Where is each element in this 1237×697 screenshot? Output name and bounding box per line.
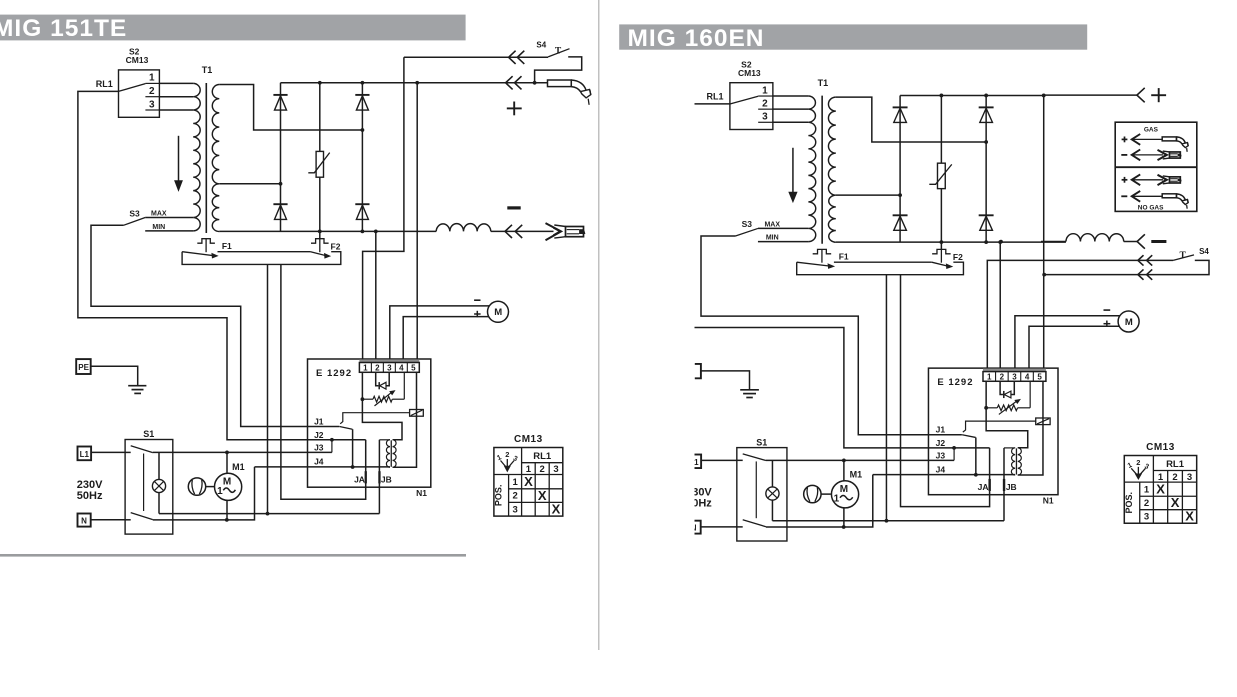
svg-text:T1: T1 (818, 78, 829, 88)
wire pin3 stub (386, 372, 389, 385)
wire S3 to J1 (91, 225, 339, 426)
wire N to S1 (701, 526, 737, 528)
node J2 bracket junction (952, 446, 956, 450)
wire plus bus vertical to pin5 (1043, 95, 1045, 368)
relay contact blade J1 (340, 427, 353, 430)
table CM13 X marks (524, 474, 561, 516)
terminal N box (687, 521, 701, 534)
wire lamp line to JB (772, 520, 1004, 522)
terminal strip 1-5 (983, 372, 1046, 382)
lamp wire bottom (158, 493, 160, 514)
table CM13 column numbers (526, 464, 559, 475)
svg-text:JB: JB (381, 475, 392, 485)
wire T1 secondary mid tap to rectifier (219, 183, 280, 185)
wire rectifier left column (899, 95, 901, 242)
svg-text:1: 1 (512, 477, 518, 488)
transformer JA/JB core (1015, 448, 1017, 474)
motor M1 (215, 473, 242, 500)
switch S3 blade (124, 218, 145, 226)
table CM13 row numbers (1144, 485, 1150, 523)
wire JB bar to lamp line (1003, 448, 1005, 521)
connector JA bar (988, 479, 990, 491)
wire T1 MAX tap (758, 227, 808, 229)
node rectifier AC input right (984, 140, 988, 144)
svg-text:RL1: RL1 (1166, 459, 1185, 470)
switch S1 box (737, 448, 787, 541)
potentiometer R1 (986, 381, 1030, 414)
diode D5 (board) (379, 382, 386, 389)
diode D5 (board) (1004, 391, 1011, 398)
wire L1 phase line to J3 (766, 459, 954, 461)
svg-text:3: 3 (1012, 372, 1017, 381)
svg-text:M1: M1 (232, 462, 245, 472)
switch S1 bottom blade (743, 520, 766, 527)
svg-text:3: 3 (149, 99, 155, 110)
svg-text:RL1: RL1 (96, 79, 113, 89)
varistor RV1 wire bottom (319, 177, 321, 231)
svg-text:2: 2 (540, 464, 545, 475)
connector chevron on plus output (1137, 88, 1145, 102)
connector chevrons on S4 line (509, 51, 525, 64)
svg-text:2: 2 (1000, 372, 1005, 381)
legend arrow GAS minus row (1121, 150, 1163, 161)
fuse F1 element (197, 238, 215, 252)
node motor M1 top junction (225, 451, 229, 455)
svg-text:N1: N1 (1043, 496, 1054, 506)
connector JB bar (1003, 479, 1005, 491)
switch S1 top blade (743, 454, 766, 461)
wire PE to ground (91, 366, 138, 386)
svg-text:2: 2 (512, 491, 517, 502)
svg-text:J1: J1 (314, 416, 324, 426)
label plus output (507, 102, 522, 116)
wire S4 trigger line (left page) (404, 56, 548, 58)
wire S2 pin2 to T1 primary (773, 108, 809, 110)
wire inductor to chevron (1124, 241, 1137, 243)
node plus bus taps (318, 81, 419, 85)
terminal strip hatched band (983, 369, 1046, 372)
wire L1 to S1 (91, 451, 125, 453)
svg-text:M: M (494, 307, 502, 318)
svg-text:MIG 151TE: MIG 151TE (0, 15, 127, 42)
title bar MIG 160EN (619, 24, 1087, 51)
node S4 loop to plus line (533, 81, 537, 85)
svg-text:2: 2 (505, 450, 509, 459)
wire bar leg right to JA (281, 264, 366, 499)
connector chevrons on plus line (506, 76, 522, 89)
wire bar leg left to lamp line (267, 264, 269, 513)
svg-text:S4: S4 (1199, 247, 1209, 256)
svg-text:POS.: POS. (1124, 492, 1134, 514)
svg-text:F2: F2 (953, 252, 963, 262)
terminal PE box (clipped) (695, 364, 701, 378)
transformer JB winding (1018, 448, 1022, 475)
wire minus bus tap to pin2 (375, 231, 377, 359)
svg-text:JB: JB (1006, 482, 1017, 492)
wire motor M1 bottom (226, 500, 228, 520)
wire T1 MIN tap (758, 241, 808, 243)
svg-text:50Hz: 50Hz (686, 497, 712, 509)
switch S2 label (738, 59, 761, 77)
inductor L1 (output choke) (1066, 234, 1124, 242)
fuse F1 blade (797, 262, 834, 268)
svg-text:J1: J1 (936, 425, 946, 435)
wire motor M plus lead to pin4 (1029, 326, 1119, 368)
svg-text:CM13: CM13 (514, 434, 543, 445)
fan icon (804, 485, 821, 502)
terminal L1 box (78, 447, 92, 461)
title bar MIG 151TE (0, 15, 466, 43)
wire L1 to S1 (701, 459, 737, 461)
fan icon (188, 478, 205, 495)
left page circuit (76, 41, 591, 534)
board E1292 box (928, 368, 1058, 495)
node motor M1 bottom junction (225, 518, 229, 522)
wire rectifier right column (361, 83, 363, 232)
transformer T1 core (821, 96, 823, 244)
wire motor M1 top (843, 460, 845, 481)
svg-text:M: M (223, 476, 231, 487)
fuse F2 element (311, 238, 329, 252)
node minus bus to pin2 (999, 240, 1003, 244)
wire plus bus (bridge section) (281, 82, 418, 84)
node rectifier AC input left (279, 182, 283, 186)
thermal cutout bar (182, 252, 341, 265)
svg-text:M: M (1125, 317, 1133, 328)
wire rectifier right column (985, 95, 987, 242)
wire S4 line down to pin1 (363, 57, 404, 359)
lamp wire top (771, 460, 773, 487)
wire T1 MIN tap (145, 230, 193, 232)
terminal PE box (76, 359, 91, 374)
svg-text:X: X (552, 502, 561, 517)
svg-text:F1: F1 (839, 251, 849, 261)
svg-text:N: N (691, 524, 697, 533)
svg-text:L1: L1 (80, 450, 90, 459)
diode D2 (355, 95, 369, 110)
wire neutral line to J4 (766, 475, 873, 527)
transformer JA winding (386, 440, 390, 468)
earth clamp icon (minus output) (546, 223, 585, 240)
wire plus bus vertical to pin5 (416, 83, 418, 360)
switch S2 contact bars (758, 96, 773, 122)
table CM13 row numbers (512, 477, 518, 515)
wire J4 line to JA winding bottom (873, 474, 1015, 476)
torch icon GAS plus row (1162, 137, 1188, 152)
wire motor M plus lead to pin4 (403, 317, 489, 360)
svg-text:J2: J2 (314, 430, 324, 440)
svg-text:S3: S3 (742, 219, 753, 229)
svg-text:NO GAS: NO GAS (1138, 204, 1164, 211)
switch S2 contact numbers (762, 85, 768, 122)
svg-text:CM13: CM13 (1146, 442, 1175, 453)
wire T1 secondary top tap to rectifier (219, 85, 362, 131)
table CM13 column numbers (1158, 472, 1192, 483)
switch S2 label (126, 46, 149, 65)
wire S3 to J1 (701, 236, 962, 435)
diode D4 (355, 204, 369, 219)
svg-text:S1: S1 (756, 437, 767, 447)
switch S1 bottom stub (125, 519, 131, 521)
svg-text:X: X (1185, 509, 1194, 524)
svg-text:J3: J3 (936, 450, 946, 460)
svg-text:CM13: CM13 (738, 68, 761, 78)
wire J2-J3 bracket (331, 440, 333, 453)
wire S2 pin1 to T1 primary (159, 82, 193, 84)
lamp wire bottom (771, 500, 773, 521)
node J2 bracket junction (330, 438, 334, 442)
switch S2 contact numbers (149, 73, 155, 111)
svg-text:E 1292: E 1292 (937, 377, 973, 388)
switch S1 link (143, 454, 145, 512)
wire RL1 net: S2 input down and across to J2 (687, 104, 989, 448)
wire minus bus to inductor (1041, 241, 1066, 243)
page divider line (598, 0, 600, 650)
arrow regulator mark on T1 (789, 148, 797, 202)
varistor RV1 wire top (940, 95, 942, 163)
svg-text:M1: M1 (850, 470, 863, 480)
node motor M1 top junction (842, 458, 846, 462)
svg-text:3: 3 (1187, 472, 1192, 483)
node J4 junction (351, 465, 355, 469)
svg-text:3: 3 (512, 504, 517, 515)
wire S2 pin3 to T1 primary (773, 121, 809, 123)
label minus output (1151, 240, 1166, 243)
varistor RV1 (308, 151, 329, 177)
svg-text:3: 3 (553, 464, 558, 475)
svg-text:MAX: MAX (764, 221, 780, 228)
motor M (wire feed) (488, 301, 509, 322)
svg-text:N1: N1 (416, 488, 427, 498)
legend arrow NO GAS plus row (1122, 174, 1163, 185)
wire pin2 stub (376, 372, 379, 385)
table CM13 selector icon (496, 450, 518, 471)
wire F2 stem to minus bus (319, 231, 321, 238)
svg-text:1: 1 (987, 372, 992, 381)
wire J1 blade to J4 line (975, 437, 977, 474)
wire bar leg right to JA (901, 275, 990, 507)
svg-text:3: 3 (1144, 512, 1149, 523)
legend arrow NO GAS minus row (1121, 191, 1162, 202)
svg-text:RL1: RL1 (706, 92, 723, 102)
switch S1 box (125, 440, 173, 535)
node potentiometer left tap (984, 406, 988, 410)
switch S1 top stub (125, 451, 131, 453)
svg-text:5: 5 (411, 363, 416, 372)
svg-text:J3: J3 (314, 443, 324, 453)
right page circuit (outputs and legend) (695, 88, 1210, 398)
label minus at motor M (1103, 309, 1110, 311)
connector chevron on minus output (1137, 234, 1145, 248)
node lamp line junction (885, 519, 889, 523)
switch S2 box (119, 70, 160, 117)
wire fan to motor M1 (822, 493, 831, 495)
switch S4 blade (548, 49, 569, 57)
terminal N box (78, 514, 91, 527)
wire neutral line to J4 (153, 467, 255, 520)
svg-text:X: X (524, 474, 533, 489)
svg-text:E 1292: E 1292 (316, 368, 352, 379)
svg-text:4: 4 (399, 363, 404, 372)
label 230V 50Hz (686, 486, 712, 509)
diode D4 (979, 215, 994, 230)
lamp wire top (158, 452, 160, 479)
diode D3 (273, 204, 287, 219)
switch S4 blade (1173, 255, 1194, 261)
label 230V 50Hz (77, 479, 103, 502)
switch S1 bottom stub (737, 526, 743, 528)
wire motor M1 bottom (843, 508, 845, 527)
svg-text:2: 2 (149, 86, 155, 97)
earth clamp icon GAS minus row (1158, 150, 1182, 160)
node motor M1 bottom junction (842, 525, 846, 529)
switch S1 top stub (737, 459, 743, 461)
potentiometer R1 (362, 372, 404, 406)
node J4 junction (974, 473, 978, 477)
varistor RV1 wire top (319, 83, 321, 152)
fuse F1 element (813, 249, 831, 263)
thermal cutout bar (797, 262, 964, 275)
wire S2 pin3 to T1 primary (159, 109, 193, 111)
wire pin1 to JB winding top (986, 381, 1028, 448)
motor M1 (831, 481, 858, 508)
diode D1 (273, 95, 287, 110)
svg-text:J4: J4 (314, 457, 324, 467)
label plus output (1151, 88, 1166, 102)
transformer T1 core (205, 83, 207, 233)
transformer T1 primary winding (193, 83, 200, 231)
terminal L1 box (687, 455, 701, 469)
connector JA bar (365, 471, 367, 483)
svg-text:4: 4 (1025, 372, 1030, 381)
switch S2 blade (119, 84, 145, 92)
wire fan to motor M1 (206, 486, 215, 488)
fuse F2 blade (311, 252, 330, 258)
svg-text:RL1: RL1 (533, 451, 552, 462)
wire S4 fixed contact loop to plus line (535, 57, 582, 83)
svg-text:2: 2 (1136, 458, 1140, 467)
table CM13 X marks (1156, 482, 1194, 524)
transformer JA winding (1011, 448, 1015, 475)
lamp HL1 (766, 487, 779, 500)
wire J4 line to JA winding bottom (255, 466, 391, 468)
svg-text:1: 1 (217, 486, 223, 497)
svg-text:5: 5 (1037, 372, 1042, 381)
wire pin3 stub (1011, 381, 1014, 394)
wire JB bar to lamp line (378, 440, 380, 514)
wire S2 pin1 to T1 primary (773, 95, 809, 97)
switch S1 top blade (131, 446, 153, 453)
transformer T1 secondary winding (828, 97, 835, 242)
wire J2-J3 bracket (953, 448, 955, 460)
wire pin5 through relay coil to JB winding bottom (1018, 381, 1043, 475)
svg-text:2: 2 (762, 99, 768, 110)
svg-text:1: 1 (363, 363, 368, 372)
node plus bus taps (939, 94, 1045, 98)
varistor RV1 wire bottom (940, 189, 942, 243)
wire plus bus to output (right page) (1044, 94, 1137, 96)
wire motor M1 top (226, 452, 228, 473)
svg-text:1: 1 (1144, 485, 1150, 496)
svg-text:X: X (1156, 482, 1165, 497)
svg-text:MIG 160EN: MIG 160EN (628, 25, 765, 52)
legend arrow GAS plus row (1122, 134, 1163, 145)
node S4 return to pin5 wire (1042, 273, 1046, 277)
svg-text:F2: F2 (331, 241, 341, 251)
svg-text:JA: JA (978, 482, 989, 492)
svg-text:3: 3 (762, 112, 768, 123)
wire plus bus (bridge section) (900, 94, 1044, 96)
node potentiometer left tap (361, 397, 365, 401)
svg-text:50Hz: 50Hz (77, 490, 103, 502)
svg-text:S1: S1 (143, 429, 154, 439)
transformer JB winding (393, 440, 397, 468)
wire pin5 through relay coil to JB winding bottom (393, 372, 417, 467)
svg-text:2: 2 (1172, 472, 1177, 483)
relay coil RL1 (410, 410, 424, 417)
transformer T1 secondary winding (212, 85, 219, 232)
board E1292 box (308, 359, 431, 487)
ground symbol (128, 386, 146, 394)
svg-text:MAX: MAX (151, 210, 167, 217)
node rectifier AC input left (898, 193, 902, 197)
svg-text:S4: S4 (536, 41, 546, 50)
svg-text:J4: J4 (936, 464, 946, 474)
wire bar leg left to lamp line (885, 275, 887, 521)
svg-text:CM13: CM13 (126, 55, 149, 65)
wire pin1 to JB winding top (362, 372, 402, 439)
wire inductor to clamp (491, 230, 554, 232)
terminal strip hatched band (359, 359, 419, 362)
wire RL1 net: S2 input down and across to J2 (78, 91, 366, 439)
transformer T1 primary winding (808, 96, 815, 242)
svg-text:1: 1 (149, 73, 155, 84)
wire motor M minus lead to pin3 (390, 306, 490, 359)
wire S2 pin2 to T1 primary (159, 96, 193, 98)
table CM13 selector icon (1127, 458, 1150, 479)
node rectifier AC input right (361, 128, 365, 132)
wire minus bus tap to pin2 (999, 242, 1001, 368)
wire JA winding top link (379, 439, 390, 441)
diode D1 (893, 107, 908, 122)
svg-text:2: 2 (1144, 498, 1149, 509)
svg-text:MIN: MIN (766, 235, 779, 242)
switch S3 blade (735, 228, 757, 236)
svg-text:MIN: MIN (152, 224, 165, 231)
diode D2 (979, 107, 994, 122)
relay coil RL1 wire (340, 413, 409, 424)
svg-text:1: 1 (834, 493, 840, 504)
wire T1 secondary top tap to rectifier (836, 97, 986, 142)
wire PE to ground (701, 371, 750, 390)
svg-text:PE: PE (78, 363, 89, 372)
switch S2 blade (730, 96, 758, 104)
svg-text:M: M (840, 484, 848, 495)
lamp HL1 (152, 479, 165, 492)
table CM13 grid (494, 448, 563, 517)
svg-text:X: X (1171, 495, 1180, 510)
wire plus bus to torch (417, 82, 547, 84)
wire rectifier left column (280, 83, 282, 232)
wire T1 secondary mid tap to rectifier (836, 194, 900, 196)
svg-text:J2: J2 (936, 438, 946, 448)
table CM13 grid (1124, 456, 1196, 524)
switch S2 contact bars (145, 83, 159, 110)
wire motor M minus lead to pin3 (1015, 316, 1120, 369)
wire S4 fixed contact return loop (1044, 260, 1209, 274)
wire JA winding top link (1004, 447, 1015, 449)
polarity legend box GAS / NO GAS (1115, 122, 1197, 211)
